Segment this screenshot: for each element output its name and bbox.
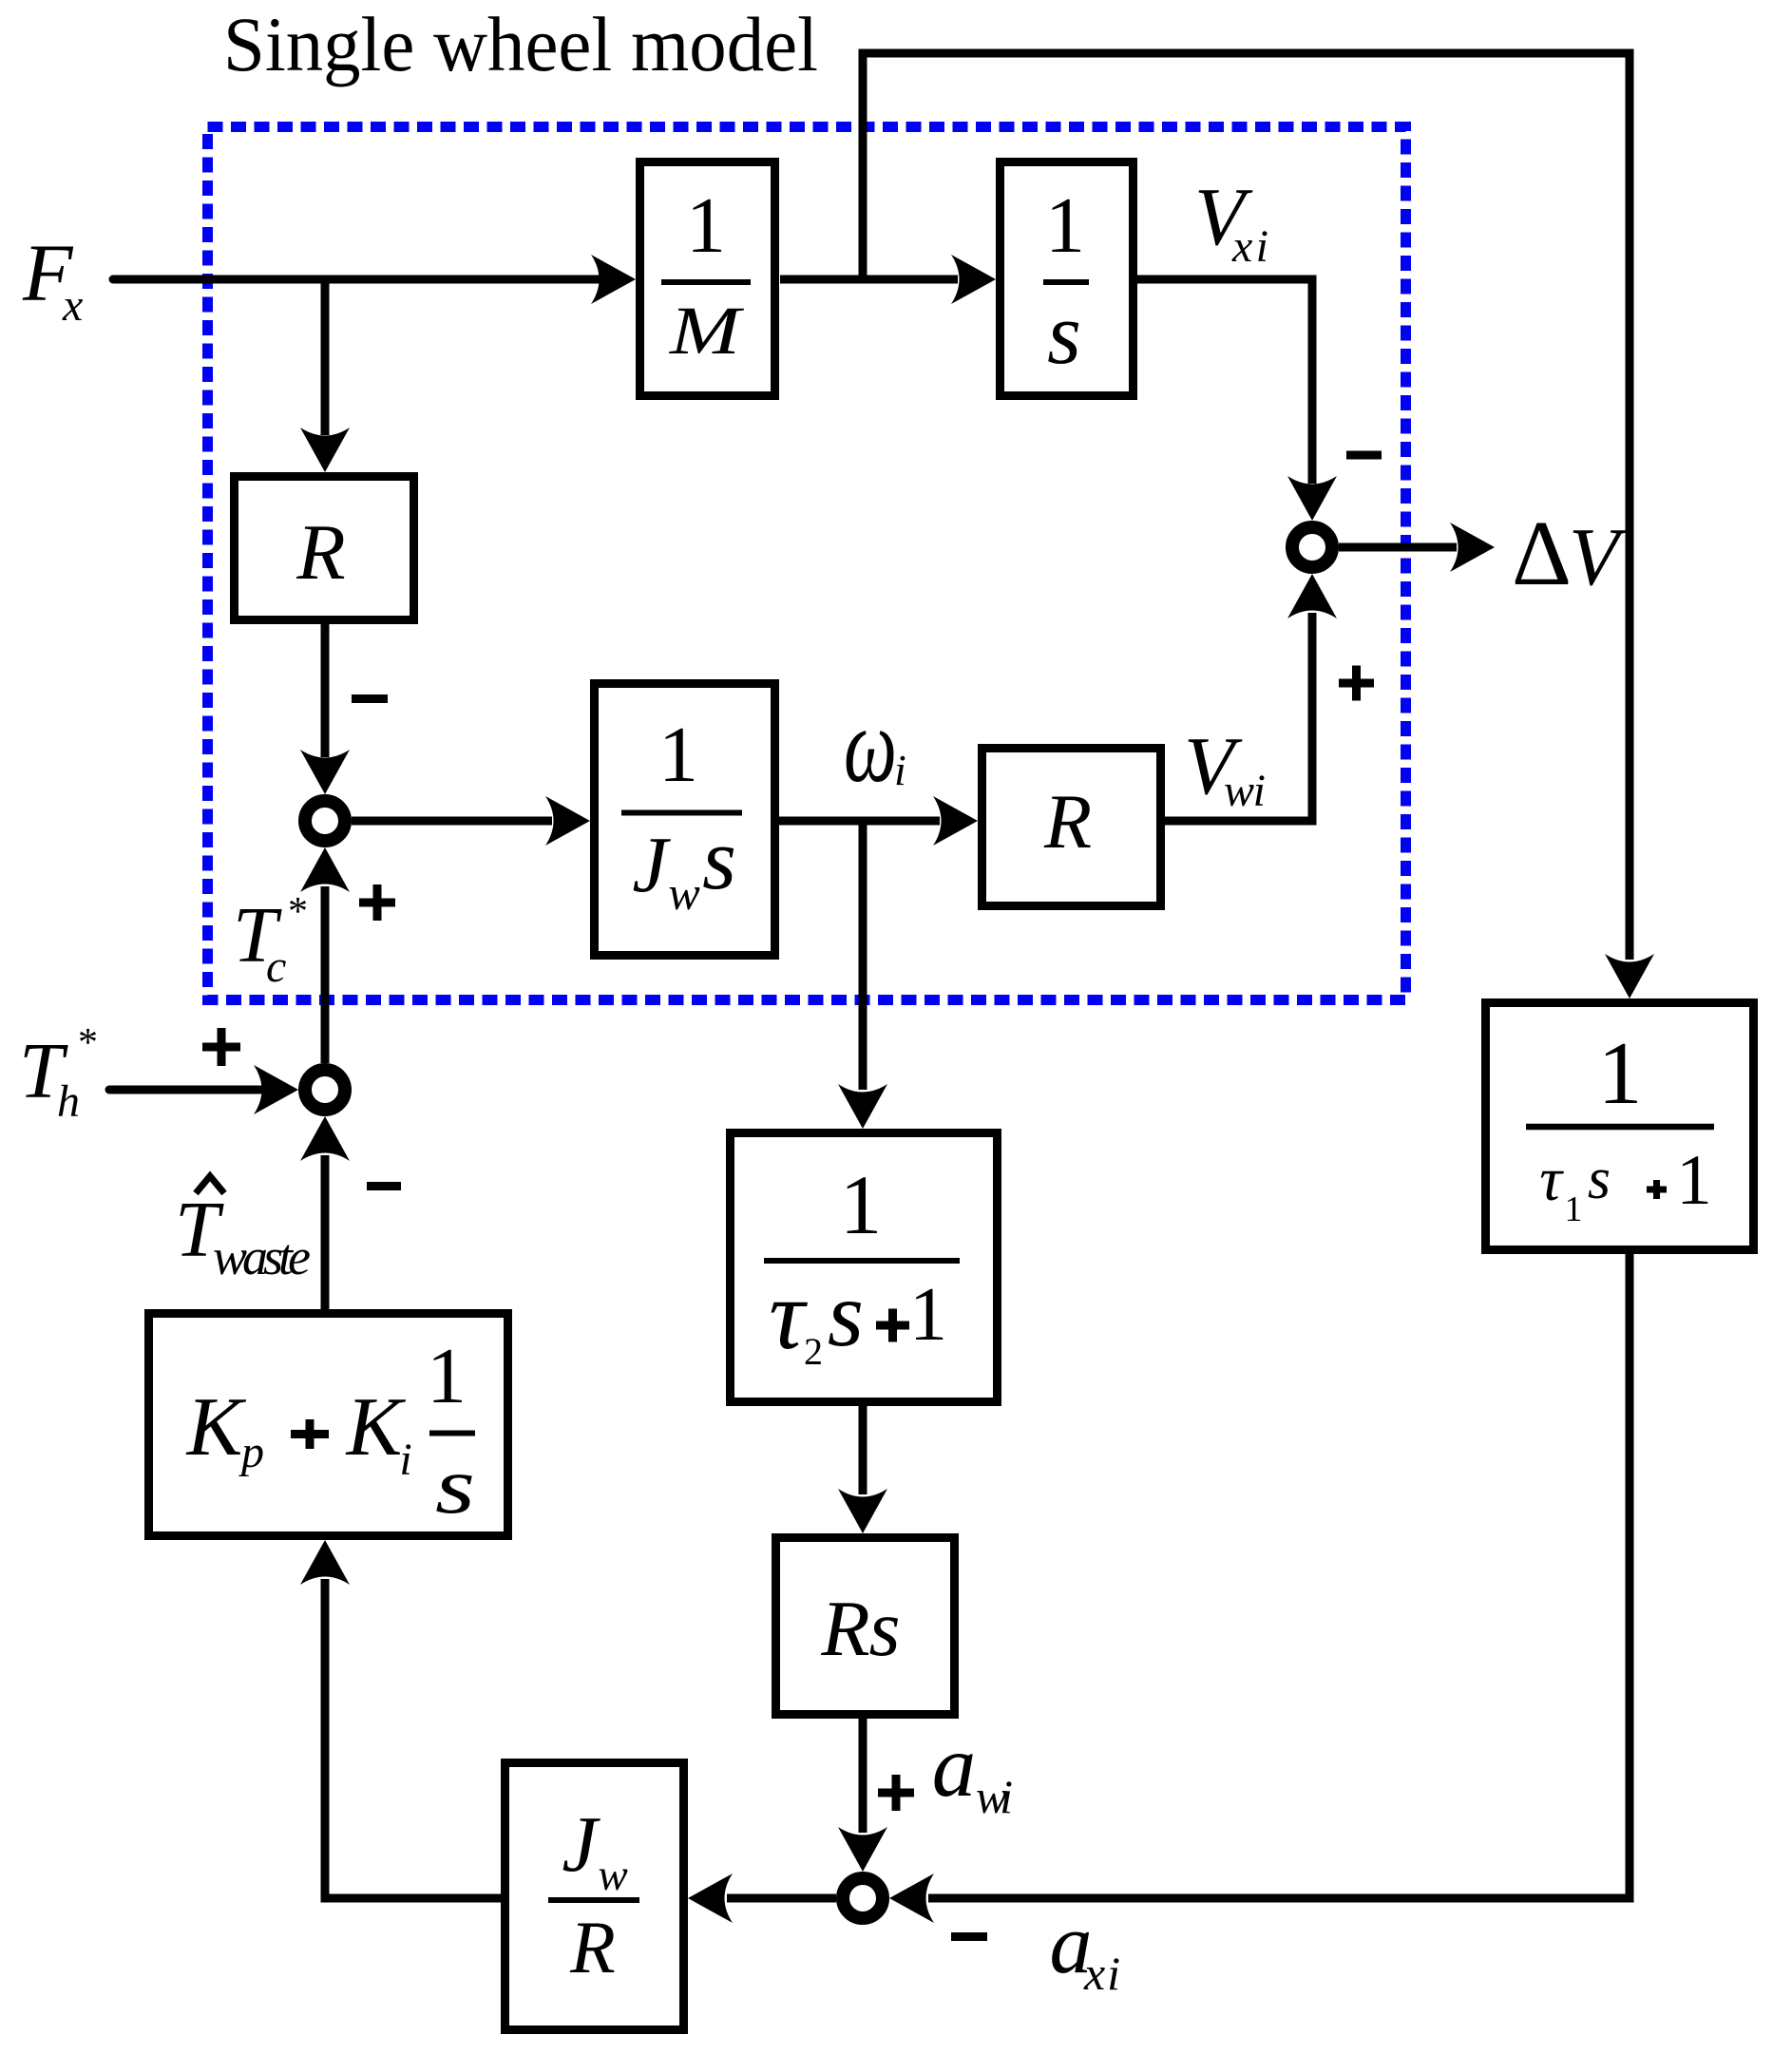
svg-text:R: R: [1043, 778, 1092, 865]
svg-text:s: s: [868, 1584, 900, 1673]
svg-text:x: x: [62, 280, 83, 331]
wire Jws to R (right): [779, 796, 978, 846]
summing junction omega (sum1): [305, 801, 345, 841]
svg-text:p: p: [238, 1427, 264, 1477]
svg-text:V: V: [1569, 510, 1628, 602]
wire sum3 up to sum1: [300, 847, 350, 1063]
wire tau1 down and left to sum4: [889, 1254, 1630, 1923]
svg-text:i: i: [399, 1435, 411, 1485]
svg-text:Δ: Δ: [1512, 503, 1572, 605]
summing junction deltaV: [1292, 527, 1332, 567]
wire Kp up to sum3: [300, 1116, 350, 1309]
svg-text:R: R: [295, 508, 345, 597]
block 1/(tau1 s + 1): [1486, 1003, 1754, 1250]
node awi label: [932, 1718, 1013, 1823]
svg-text:i: i: [894, 746, 906, 794]
wire sum to deltaV output: [1339, 523, 1495, 572]
wire sum1 to 1/Jws: [352, 796, 590, 846]
svg-text:s: s: [702, 810, 736, 907]
svg-text:τ: τ: [1539, 1145, 1564, 1214]
svg-text:a: a: [932, 1718, 977, 1816]
svg-text:*: *: [78, 1021, 98, 1065]
block 1/s: [1001, 162, 1134, 396]
wire feedback tap up and across top to tau1: [863, 53, 1654, 998]
block Kp + Ki 1/s: [149, 1314, 508, 1536]
block 1/M: [640, 162, 775, 396]
svg-text:xi: xi: [1231, 221, 1268, 272]
svg-text:ω: ω: [844, 687, 897, 805]
svg-text:R: R: [569, 1906, 616, 1988]
svg-text:waste: waste: [213, 1228, 311, 1285]
block 1/(tau2 s + 1): [731, 1133, 998, 1402]
svg-text:1: 1: [686, 181, 726, 270]
summing junction awi/axi (sum4): [843, 1878, 883, 1918]
svg-text:K: K: [345, 1381, 407, 1474]
wire R right to Vwi corner up to sum deltaV: [1165, 574, 1337, 821]
minus sign at Vxi into sum: [1346, 451, 1382, 460]
wire R down to sum1: [300, 624, 350, 794]
svg-text:1: 1: [1598, 1024, 1643, 1123]
wire Fx tap down to R: [300, 279, 350, 472]
svg-text:1: 1: [658, 711, 698, 799]
wire Jw/R left and up to Kp: [300, 1540, 501, 1898]
svg-text:1: 1: [1045, 181, 1085, 270]
svg-text:1: 1: [1676, 1141, 1712, 1220]
wire sum4 to Jw/R: [688, 1873, 836, 1923]
svg-text:c: c: [266, 941, 286, 992]
plus sign Tc into sum1: [359, 884, 395, 921]
minus sign Twaste into sum3: [367, 1182, 401, 1190]
svg-text:s: s: [1047, 285, 1081, 382]
svg-text:w: w: [668, 866, 699, 920]
node Tc* label: [233, 890, 308, 992]
wire Rs down to sum4: [838, 1719, 887, 1872]
svg-text:1: 1: [1565, 1189, 1583, 1229]
svg-text:s: s: [828, 1264, 864, 1366]
wire 1/s out to Vxi corner down to sum: [1137, 279, 1337, 521]
svg-text:xi: xi: [1083, 1947, 1120, 2000]
wire omega tap down to tau2: [838, 821, 887, 1129]
svg-text:K: K: [185, 1381, 247, 1474]
svg-text:1: 1: [909, 1273, 947, 1357]
wire Fx input: [113, 255, 636, 304]
plus sign Th into sum3: [202, 1028, 240, 1066]
node Vwi label: [1184, 719, 1266, 816]
svg-text:h: h: [57, 1076, 80, 1127]
svg-text:J: J: [632, 821, 671, 909]
node Fx input label: [22, 227, 83, 331]
block 1/Jws: [595, 684, 775, 956]
block R (right): [982, 749, 1161, 906]
svg-text:R: R: [820, 1585, 869, 1673]
svg-text:w: w: [598, 1851, 627, 1900]
wire 1/M to 1/s: [780, 255, 996, 304]
minus sign R into sum1: [352, 694, 388, 703]
svg-text:wi: wi: [1224, 766, 1266, 816]
minus sign axi into sum4: [951, 1932, 987, 1941]
block Jw/R: [505, 1763, 684, 2030]
svg-text:1: 1: [840, 1159, 883, 1252]
wire tau2 down to Rs: [838, 1406, 887, 1533]
svg-text:Single wheel model: Single wheel model: [223, 1, 818, 87]
dashed boundary: Single wheel model box: [208, 127, 1406, 1000]
node omega_i label: [844, 687, 906, 805]
svg-text:*: *: [288, 890, 308, 934]
svg-text:M: M: [669, 293, 745, 369]
svg-text:τ: τ: [769, 1259, 808, 1370]
plus sign awi into sum4: [878, 1775, 914, 1811]
node Vxi label: [1194, 170, 1268, 272]
node deltaV label: [1512, 503, 1628, 605]
summing junction Th (sum3): [305, 1070, 345, 1110]
node Twaste label: [175, 1176, 311, 1285]
svg-text:2: 2: [804, 1330, 823, 1373]
block Rs: [776, 1538, 955, 1715]
svg-text:J: J: [562, 1800, 601, 1889]
svg-text:1: 1: [427, 1332, 467, 1420]
node axi label: [1050, 1897, 1121, 2000]
block R (upper left): [235, 477, 414, 620]
node Th* label: [19, 1021, 98, 1127]
svg-text:wi: wi: [976, 1770, 1013, 1823]
svg-text:s: s: [435, 1441, 475, 1531]
plus sign Vwi into sum: [1339, 666, 1374, 701]
wire Th input to sum3: [109, 1065, 298, 1114]
svg-text:s: s: [1588, 1147, 1611, 1211]
